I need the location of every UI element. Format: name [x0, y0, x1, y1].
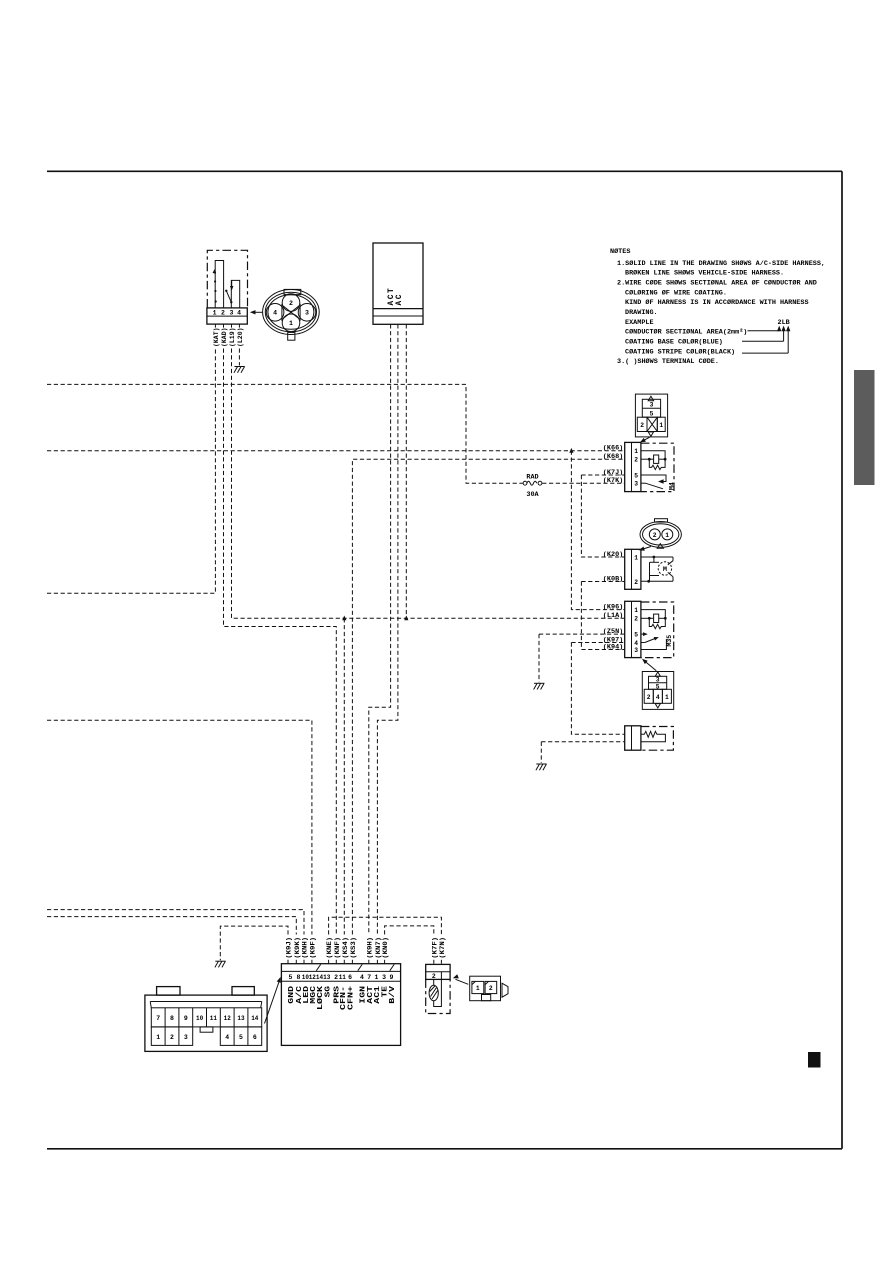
control panel pin numbers [289, 974, 394, 981]
svg-text:4: 4 [273, 310, 277, 317]
svg-text:(KS3): (KS3) [350, 937, 358, 959]
svg-text:1: 1 [213, 310, 217, 317]
svg-text:1: 1 [476, 985, 480, 992]
svg-text:5: 5 [289, 974, 293, 981]
svg-text:8: 8 [170, 1015, 174, 1022]
svg-text:(K7K): (K7K) [603, 477, 624, 485]
wire bus to pressure switch (KAT) [47, 349, 215, 594]
svg-text:13: 13 [237, 1015, 244, 1022]
svg-text:CFN-: CFN- [340, 986, 348, 1010]
svg-text:M: M [663, 566, 667, 574]
pressure switch contact bar 2 [231, 280, 239, 308]
wire resistor to ground [541, 741, 624, 743]
ground pressure switch [234, 367, 245, 373]
svg-text:M35: M35 [666, 635, 673, 647]
wire panel A/C output to relay M4 coil (K68/KS3) [352, 459, 624, 934]
svg-text:NØTES: NØTES [610, 247, 630, 256]
svg-text:(KNH): (KNH) [302, 937, 310, 959]
wire L19 to relay M35 (L1A) [232, 349, 625, 619]
wire ACT1 to panel (K9H) [369, 324, 391, 934]
resistor R1 connector strip [625, 726, 641, 750]
svg-text:1: 1 [665, 694, 669, 701]
svg-text:5: 5 [239, 1034, 243, 1041]
thermo sensor connector face view [470, 976, 508, 1001]
relay M35 contact [641, 633, 645, 635]
svg-text:4: 4 [360, 974, 364, 981]
svg-text:CØNDUCTØR SECTIØNAL AREA(2mm²): CØNDUCTØR SECTIØNAL AREA(2mm²) [625, 328, 747, 337]
svg-text:CØATING BASE CØLØR(BLUE): CØATING BASE CØLØR(BLUE) [625, 337, 723, 346]
relay M4 pin numbers [634, 448, 638, 488]
svg-text:2: 2 [334, 974, 338, 981]
svg-text:3: 3 [305, 310, 309, 317]
svg-text:(K96): (K96) [603, 603, 624, 611]
actuator unit ACT AC box [373, 243, 423, 324]
round connector pin numbers [273, 300, 309, 327]
svg-text:2: 2 [634, 616, 638, 623]
junction arrow ACT wire [404, 616, 408, 621]
svg-text:2: 2 [640, 422, 644, 429]
svg-text:3: 3 [229, 310, 233, 317]
svg-text:12: 12 [309, 974, 316, 981]
svg-text:SG: SG [324, 986, 332, 997]
svg-text:EXAMPLE: EXAMPLE [625, 319, 654, 327]
svg-text:3: 3 [634, 647, 638, 654]
page frame top border [47, 170, 842, 172]
relay M4 coil [641, 451, 665, 460]
ground panel GND [215, 961, 226, 967]
svg-text:7: 7 [156, 1015, 160, 1022]
svg-text:6: 6 [253, 1034, 257, 1041]
svg-text:(KN0): (KN0) [382, 937, 390, 959]
pressure switch connector strip [207, 308, 247, 324]
svg-text:(K9J): (K9J) [286, 937, 294, 959]
svg-text:2: 2 [647, 694, 651, 701]
wire fan motor return to relay M35 (K0B/K94) [581, 581, 624, 583]
svg-text:CØATING STRIPE CØLØR(BLACK): CØATING STRIPE CØLØR(BLACK) [625, 347, 735, 356]
pressure switch pin numbers [213, 310, 242, 317]
relay connector face arrow (M4) [643, 437, 650, 441]
relay M4 connector strip [625, 442, 641, 491]
fan motor oval connector pin numbers [653, 532, 670, 539]
svg-text:3: 3 [634, 481, 638, 488]
wire L1A branch to panel (KS4) [343, 618, 345, 934]
svg-text:14: 14 [251, 1015, 258, 1022]
svg-text:2: 2 [653, 532, 657, 539]
control panel signal names [288, 985, 397, 1010]
pressure switch S1 dash-dot outline [207, 250, 247, 307]
relay connector face pin numbers (M35) [647, 676, 669, 701]
svg-text:3: 3 [184, 1034, 188, 1041]
14-pin connector face view [145, 987, 267, 1052]
relay M35 connector strip [625, 601, 641, 657]
thermo sensor connector face pin numbers [476, 985, 493, 992]
svg-text:1: 1 [374, 974, 378, 981]
svg-text:(L1A): (L1A) [603, 612, 624, 620]
svg-text:13: 13 [323, 974, 330, 981]
svg-text:12: 12 [224, 1015, 231, 1022]
resistor R1 element [641, 731, 666, 742]
svg-text:B/V: B/V [389, 985, 397, 1004]
wire panel GND to ground (K9J) [220, 926, 288, 960]
svg-text:9: 9 [390, 974, 394, 981]
svg-text:ACT: ACT [388, 287, 396, 306]
thermo sensor element [429, 972, 441, 1007]
svg-text:(K7N): (K7N) [439, 937, 447, 959]
svg-text:4: 4 [225, 1034, 229, 1041]
svg-text:5: 5 [650, 410, 654, 417]
svg-text:(K20): (K20) [603, 551, 624, 559]
wire panel TE to thermo sensor (KN0/K7F) [385, 926, 434, 935]
svg-text:7: 7 [367, 974, 371, 981]
wire ACT2 to panel (KN7) [377, 324, 398, 934]
svg-text:(L20): (L20) [237, 328, 245, 348]
relay connector face view (M4) [635, 394, 667, 437]
relay connector face pin numbers (M4) [640, 402, 663, 429]
gray side tab [854, 370, 875, 485]
svg-text:(Z5N): (Z5N) [603, 628, 624, 636]
14-pin connector pin cells [151, 1008, 261, 1046]
wire bus to panel LED (KNH) [47, 910, 304, 935]
wire K66 branch to M35 coil (K96) [571, 451, 624, 610]
relay M35 coil [641, 610, 665, 619]
svg-text:BRØKEN LINE SHØWS VEHICLE-SIDE: BRØKEN LINE SHØWS VEHICLE-SIDE HARNESS. [625, 268, 784, 277]
svg-text:AC: AC [396, 293, 404, 306]
round connector pointer arrow [253, 311, 263, 313]
control panel box [281, 964, 400, 1046]
svg-text:1: 1 [289, 320, 293, 327]
svg-text:(K68): (K68) [603, 453, 624, 461]
wire L20 to ground [238, 349, 240, 366]
panel wire stubs [288, 960, 441, 964]
svg-text:2: 2 [634, 457, 638, 464]
wire M35 common to resistor (K97) [571, 642, 624, 644]
wire ACT3 to L1A net [405, 324, 407, 618]
fan motor connector strip [625, 549, 641, 589]
svg-text:GND: GND [288, 986, 296, 1004]
svg-text:1: 1 [665, 532, 669, 539]
svg-text:2: 2 [432, 973, 436, 980]
svg-text:2: 2 [289, 300, 293, 307]
svg-text:2.WIRE CØDE SHØWS SECTIØNAL AR: 2.WIRE CØDE SHØWS SECTIØNAL AREA ØF CØND… [617, 279, 817, 288]
svg-text:(K0B): (K0B) [603, 575, 624, 583]
svg-text:5: 5 [634, 473, 638, 480]
resistor R1 dash-dot box [641, 727, 674, 751]
svg-text:5: 5 [634, 632, 638, 639]
svg-text:11: 11 [339, 974, 346, 981]
14-pin connector numbers [156, 1015, 258, 1041]
14-pin connector arrow [265, 980, 280, 1024]
wire bus to panel IGN (K9F) [47, 720, 312, 934]
svg-text:5: 5 [656, 684, 660, 691]
svg-text:RAD: RAD [526, 474, 538, 482]
svg-text:3: 3 [656, 676, 660, 683]
wire bus B+ to RAD fuse (K7K) [47, 384, 523, 483]
relay connector face arrow (M35) [644, 661, 656, 671]
svg-text:(K94): (K94) [603, 643, 624, 651]
svg-text:DRAWING.: DRAWING. [625, 309, 658, 317]
junction arrow K66/K96 [569, 448, 573, 453]
pressure switch actuator arrow [213, 269, 217, 274]
svg-text:2LB: 2LB [778, 319, 790, 327]
page frame right border [841, 171, 843, 1149]
svg-text:(KS4): (KS4) [342, 937, 350, 959]
svg-text:1: 1 [634, 448, 638, 455]
svg-text:3.( )SHØWS TERMINAL CØDE.: 3.( )SHØWS TERMINAL CØDE. [617, 357, 719, 366]
wire bus to panel A/C (K9K) [47, 917, 296, 935]
svg-text:1: 1 [156, 1034, 160, 1041]
round connector face view [263, 289, 320, 340]
relay M4 contact [641, 475, 666, 482]
svg-text:(KNF): (KNF) [334, 937, 342, 959]
fan motor M symbol [658, 562, 671, 575]
svg-text:8: 8 [296, 974, 300, 981]
notes example leader lines [742, 329, 788, 353]
svg-text:(L19): (L19) [229, 328, 237, 348]
svg-text:(KAD): (KAD) [221, 328, 229, 348]
svg-text:1.SØLID LINE IN THE DRAWING SH: 1.SØLID LINE IN THE DRAWING SHØWS A/C-SI… [617, 259, 825, 268]
svg-text:10: 10 [196, 1015, 203, 1022]
ground Z5N [534, 683, 545, 689]
svg-text:(KAT): (KAT) [213, 328, 221, 348]
svg-text:2: 2 [170, 1034, 174, 1041]
svg-text:4: 4 [237, 310, 241, 317]
wire bus to relay M4 coil (K66) [47, 450, 625, 452]
svg-text:CFN+: CFN+ [348, 986, 356, 1010]
notes text block [610, 247, 825, 366]
thermo sensor dash-dot box [426, 979, 450, 1013]
control panel unused-pin slashes [316, 964, 394, 970]
pressure switch moving blade [226, 291, 231, 302]
svg-text:1: 1 [634, 554, 638, 561]
pressure switch contact bar 1 [215, 261, 223, 309]
relay M4 dash-dot box [641, 443, 674, 491]
fan motor oval connector face [640, 519, 681, 548]
svg-text:30A: 30A [526, 491, 539, 499]
svg-text:11: 11 [210, 1015, 217, 1022]
svg-text:1: 1 [634, 607, 638, 614]
thermo sensor connector arrow [456, 979, 469, 984]
page frame bottom border [47, 1148, 842, 1150]
svg-text:4: 4 [634, 640, 638, 647]
svg-text:1: 1 [659, 422, 663, 429]
wire relay M4 contact out to fan motor (K7J/K20) [581, 474, 624, 476]
relay connector face view (M35) [642, 672, 673, 710]
svg-text:(K66): (K66) [603, 445, 624, 453]
thermo sensor connector strip [426, 964, 450, 979]
svg-text:6: 6 [348, 974, 352, 981]
wire panel PRS to thermo sensor (KNE/K7N) [329, 917, 442, 934]
svg-text:(K9F): (K9F) [310, 937, 318, 959]
svg-text:KIND ØF HARNESS IS IN ACCØRDAN: KIND ØF HARNESS IS IN ACCØRDANCE WITH HA… [625, 298, 809, 307]
svg-text:2: 2 [489, 985, 493, 992]
relay M35 pin numbers [634, 607, 638, 654]
pressure switch actuator dots [214, 271, 217, 302]
svg-text:(K9H): (K9H) [366, 937, 374, 959]
pressure switch fixed contact arrow [231, 280, 233, 287]
svg-text:CØLØRING ØF WIRE CØATING.: CØLØRING ØF WIRE CØATING. [625, 288, 727, 297]
svg-text:2: 2 [221, 310, 225, 317]
wire M35 contact to ground (Z5N) [539, 633, 625, 635]
ground resistor [536, 764, 547, 770]
svg-text:2: 2 [634, 579, 638, 586]
fan motor pin numbers [634, 554, 638, 586]
junction arrow KS4 branch [342, 616, 346, 621]
svg-text:(K7J): (K7J) [603, 469, 624, 477]
svg-text:9: 9 [184, 1015, 188, 1022]
notes example arrows [777, 326, 790, 332]
black section marker [808, 1052, 821, 1068]
pressure switch pin stubs [215, 324, 239, 328]
svg-text:M4: M4 [668, 482, 675, 490]
svg-text:3: 3 [382, 974, 386, 981]
svg-text:3: 3 [650, 402, 654, 409]
wire KAD to panel MGC (KNF) [224, 349, 337, 935]
fuse RAD 30A [523, 481, 542, 485]
svg-text:14: 14 [316, 974, 323, 981]
svg-text:4: 4 [656, 694, 660, 701]
relay M35 dash-dot box [641, 602, 674, 658]
fan motor wiring [641, 557, 673, 581]
fan motor connector arrow [641, 547, 651, 550]
